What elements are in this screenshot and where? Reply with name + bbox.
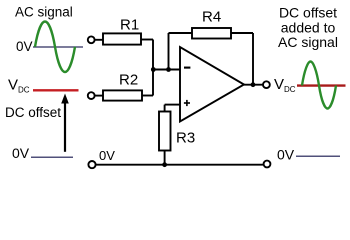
svg-text:AC signal: AC signal xyxy=(278,34,338,50)
svg-text:0V: 0V xyxy=(277,147,295,163)
svg-text:0V: 0V xyxy=(16,39,33,54)
svg-text:R3: R3 xyxy=(176,130,195,147)
svg-text:AC signal: AC signal xyxy=(15,5,73,20)
svg-text:R1: R1 xyxy=(120,17,139,34)
svg-text:DC offset: DC offset xyxy=(5,105,61,120)
svg-text:0V: 0V xyxy=(12,145,30,161)
svg-text:R4: R4 xyxy=(202,9,221,26)
svg-text:R2: R2 xyxy=(119,72,138,89)
svg-text:DC offset: DC offset xyxy=(279,5,337,21)
svg-text:0V: 0V xyxy=(99,148,115,163)
